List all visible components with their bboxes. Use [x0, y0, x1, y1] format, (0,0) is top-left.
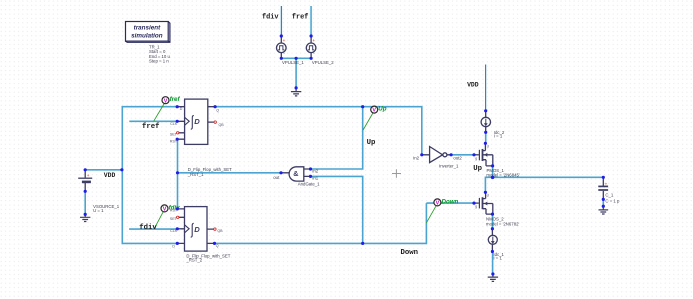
svg-text:VPULSE_2: VPULSE_2 [312, 60, 334, 65]
svg-text:D: D [180, 107, 183, 111]
svg-text:out: out [273, 175, 280, 180]
svg-text:Down: Down [401, 249, 419, 257]
svg-text:in2: in2 [413, 155, 419, 160]
svg-text:SET: SET [170, 132, 178, 136]
svg-text:SET: SET [170, 217, 178, 221]
svg-text:d: d [487, 193, 489, 197]
svg-text:D: D [194, 225, 200, 234]
svg-text:+: + [283, 38, 286, 43]
svg-text:C = 1 p: C = 1 p [605, 199, 620, 204]
svg-text:VPULSE_1: VPULSE_1 [282, 60, 304, 65]
svg-text:V: V [436, 201, 440, 207]
svg-text:fref: fref [292, 14, 309, 22]
svg-text:+: + [605, 181, 608, 186]
svg-text:fref: fref [142, 123, 160, 131]
svg-text:V: V [372, 108, 376, 114]
svg-text:&: & [293, 169, 298, 178]
svg-text:in2: in2 [312, 168, 318, 173]
svg-text:simulation: simulation [131, 33, 163, 40]
svg-text:_RST_2: _RST_2 [185, 257, 202, 262]
svg-text:I = 1: I = 1 [493, 256, 502, 261]
svg-text:AndGate_1: AndGate_1 [298, 181, 320, 186]
svg-text:transient: transient [134, 25, 161, 32]
svg-text:model = '2N6782': model = '2N6782' [486, 221, 519, 226]
svg-text:model = '2N6845': model = '2N6845' [486, 173, 519, 178]
svg-text:g: g [475, 156, 477, 160]
svg-text:Q: Q [216, 244, 219, 248]
svg-text:V: V [163, 207, 167, 213]
svg-text:d: d [487, 145, 489, 149]
svg-text:Up: Up [367, 139, 376, 147]
svg-text:Down: Down [442, 198, 459, 205]
svg-text:fdiv: fdiv [139, 224, 157, 232]
svg-text:V: V [164, 98, 168, 104]
svg-text:Step = 1 n: Step = 1 n [149, 59, 169, 64]
svg-text:RST: RST [170, 209, 178, 213]
svg-text:D: D [194, 117, 200, 126]
svg-text:in1: in1 [312, 176, 318, 181]
svg-text:out2: out2 [453, 155, 462, 160]
svg-text:g: g [475, 205, 477, 209]
svg-text:VDD: VDD [104, 172, 116, 179]
svg-text:CLK: CLK [170, 122, 178, 126]
svg-text:VDD: VDD [467, 81, 479, 88]
svg-text:+: + [312, 38, 315, 43]
svg-text:_RST_1: _RST_1 [187, 172, 204, 177]
svg-text:RST: RST [170, 140, 178, 144]
svg-text:Up: Up [473, 165, 482, 173]
svg-text:fdiv: fdiv [262, 14, 279, 22]
svg-text:CLK: CLK [170, 229, 178, 233]
svg-text:Up: Up [378, 106, 386, 113]
svg-text:I = 1: I = 1 [494, 134, 503, 139]
svg-text:C_1: C_1 [605, 192, 613, 197]
svg-text:D: D [172, 244, 175, 248]
svg-text:Q: Q [216, 108, 219, 112]
svg-text:QB: QB [219, 123, 225, 127]
svg-text:U = 1: U = 1 [93, 208, 104, 213]
svg-text:QB: QB [217, 229, 223, 233]
svg-text:fref: fref [170, 96, 181, 103]
svg-text:Inverter_1: Inverter_1 [439, 163, 459, 168]
svg-text:+: + [87, 173, 90, 178]
